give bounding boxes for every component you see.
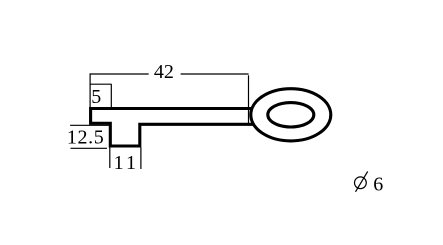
key bow inner ellipse [268, 103, 314, 127]
svg-text:12.5: 12.5 [67, 127, 104, 149]
extension line right of 42 [248, 75, 250, 125]
dimension 12.5 lower extension line [71, 147, 108, 149]
svg-text:11: 11 [114, 152, 136, 174]
key bow outer ellipse [251, 89, 331, 141]
dimension 11 right extension line [140, 148, 142, 170]
diameter symbol slash [356, 171, 368, 191]
dimension 5 box top line [90, 83, 112, 85]
dimension 5 box right line [110, 84, 112, 107]
diameter symbol circle [355, 177, 367, 189]
svg-text:5: 5 [91, 86, 101, 108]
dimension line 42 right segment [181, 73, 249, 75]
dimension 11 left extension line [109, 148, 111, 169]
svg-text:6: 6 [373, 174, 383, 196]
dimension 12.5 upper extension line [70, 124, 109, 126]
svg-text:42: 42 [154, 61, 174, 83]
extension line left of 42 [89, 73, 91, 107]
dimension line 42 left segment [90, 73, 149, 75]
key shaft and bit outline [91, 109, 253, 147]
